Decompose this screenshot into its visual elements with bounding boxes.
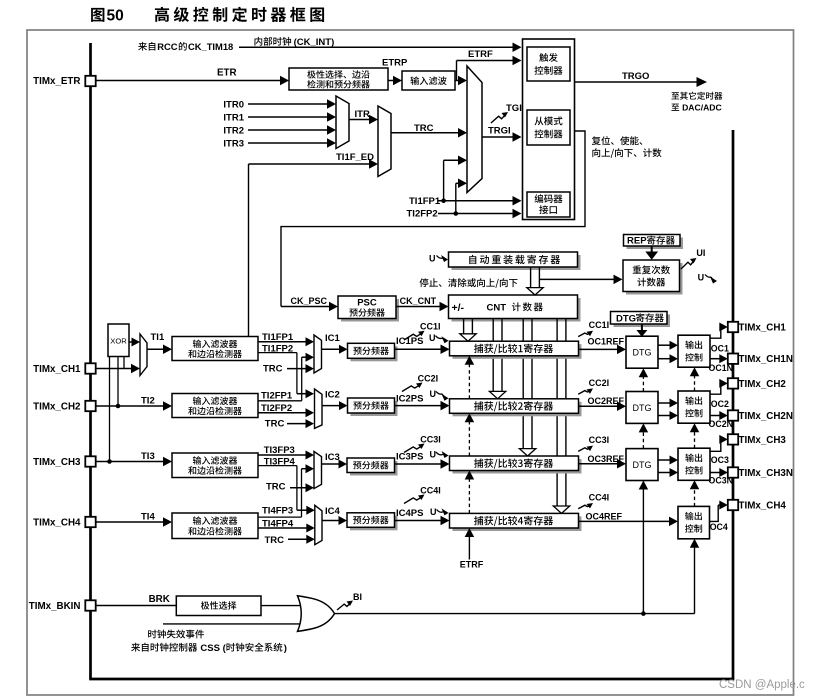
label OC3 [711, 455, 729, 465]
wire DTG3 to output control (OC3) [658, 456, 678, 465]
label TI1 [151, 332, 165, 343]
wire TI4FP3 up to IC3 mux [258, 464, 314, 517]
wire BI to DTG and output control [335, 611, 695, 616]
block 捕获/比较4寄存器 capture compare register 4 [450, 513, 582, 531]
svg-text:TIMx_CH2: TIMx_CH2 [33, 401, 81, 412]
label OC1N [709, 363, 733, 373]
svg-text:ETR: ETR [217, 68, 237, 79]
svg-text:TRC: TRC [263, 364, 283, 375]
label 内部时钟 (CK_INT) [254, 37, 334, 48]
pad TIMx_CH4 [728, 500, 738, 510]
block 捕获/比较2寄存器 capture compare register 2 [450, 399, 582, 417]
svg-text:TI1FP1: TI1FP1 [409, 196, 441, 207]
svg-text:CC4I: CC4I [589, 492, 610, 502]
block 输出控制 output control channel 2 [678, 391, 710, 423]
label CC4I capture interrupt with event arrow [404, 486, 441, 504]
wire ITR1 [248, 112, 336, 122]
label 来自时钟控制器 CSS (时钟安全系统) [131, 643, 287, 654]
label TRC channel1 [263, 364, 283, 375]
label OC2REF [588, 396, 625, 406]
label TI4FP3 [262, 506, 293, 517]
wire TI4FP4 to IC4 mux [258, 524, 315, 533]
label ETRF [468, 49, 493, 60]
svg-text:ETRF: ETRF [468, 49, 493, 60]
wire XOR input stub from TIMx_CH2 [116, 357, 121, 409]
block 触发控制器 trigger controller [527, 47, 570, 81]
svg-text:ETRF: ETRF [460, 560, 484, 570]
svg-text:U: U [430, 450, 437, 460]
svg-text:TI2: TI2 [141, 395, 155, 406]
pin TIMx_CH3N label [739, 468, 793, 479]
wire TI1FP1 to IC1 mux [258, 337, 314, 346]
block XOR [108, 324, 129, 357]
block REP寄存器 repetition register [624, 235, 684, 250]
label CC4I capture event with event arrow [578, 492, 609, 508]
svg-text:ITR3: ITR3 [223, 138, 244, 149]
label BI with event arrow [337, 592, 362, 610]
svg-text:ITR1: ITR1 [223, 112, 244, 123]
block 预分频器 prescaler channel 1 [348, 343, 398, 361]
left bus line [89, 43, 92, 679]
pad TIMx_CH4 [85, 517, 95, 527]
label ITR1 [223, 112, 244, 123]
wire XOR input stub from TIMx_CH1 [123, 357, 125, 369]
label TI1FP2 [262, 343, 293, 354]
svg-text:CSS (: CSS ( [200, 643, 226, 654]
svg-text:ETRP: ETRP [382, 58, 408, 69]
svg-text:XOR: XOR [110, 336, 127, 345]
wire polarity selection to OR gate [261, 605, 303, 607]
svg-text:DTG: DTG [633, 460, 652, 470]
wire TRC to IC1 mux [287, 364, 314, 373]
label IC2PS [396, 394, 423, 405]
label OC4REF [586, 512, 623, 522]
block 预分频器 prescaler channel 4 [347, 513, 398, 531]
svg-text:(CK_INT): (CK_INT) [294, 37, 335, 48]
svg-text:CK_CNT: CK_CNT [400, 296, 437, 306]
wire IC4PS to capture register [395, 516, 450, 526]
wire IC1PS to capture register [395, 345, 450, 355]
svg-text:+/-: +/- [452, 302, 465, 314]
svg-text:OC1: OC1 [711, 343, 729, 353]
wire OC3N to pad [710, 468, 728, 477]
wire ETRF to trigger controller [457, 56, 522, 81]
svg-text:TIMx_BKIN: TIMx_BKIN [29, 601, 81, 612]
mux TI1 selector [140, 334, 147, 376]
svg-text:TIMx_CH1N: TIMx_CH1N [739, 354, 793, 365]
wire ETR [96, 76, 290, 86]
label TI2 [141, 395, 155, 406]
block 极性选择 polarity selection [176, 596, 261, 616]
svg-text:ITR0: ITR0 [223, 99, 244, 110]
svg-text:U: U [430, 507, 437, 517]
bottom bus line [89, 678, 734, 681]
wire ETRF to trigger mux [455, 76, 467, 86]
label ETR [217, 68, 237, 79]
block 极性选择、边沿检测和预分频器 [289, 68, 388, 90]
block 输入滤波器和边沿检测器 channel 1 [172, 337, 258, 361]
pin TIMx_CH4 label [33, 517, 81, 528]
wire OC4REF [579, 517, 679, 527]
label 停止、清除或向上/向下 [420, 278, 518, 288]
wire REP register to repetition counter [645, 246, 658, 260]
svg-text:TI3: TI3 [141, 451, 155, 462]
svg-text:TI2FP1: TI2FP1 [261, 391, 293, 402]
pad TIMx_CH1 [85, 363, 95, 373]
wire OC2N to pad [710, 411, 728, 420]
wire dashed ETRF chain into capture register 2 [465, 413, 475, 456]
pin TIMx_CH2N label [739, 411, 793, 422]
label CK_CNT [400, 296, 437, 306]
label TRGO [622, 71, 649, 82]
svg-text:TI1: TI1 [151, 332, 165, 343]
wire TI3FP4 down to IC4 mux [258, 466, 315, 515]
svg-text:CSDN @Apple.c: CSDN @Apple.c [719, 679, 805, 691]
label OC2 [711, 399, 729, 409]
label TI2FP2 [261, 403, 292, 414]
pin TIMx_BKIN label [29, 601, 81, 612]
svg-text:TI4FP3: TI4FP3 [262, 506, 293, 517]
wire BRK [96, 605, 177, 607]
label TI2FP2 (trigger input) [407, 209, 438, 220]
svg-text:ITR: ITR [355, 109, 370, 120]
svg-text:CK_TIM18: CK_TIM18 [188, 41, 233, 52]
block 预分频器 prescaler channel 3 [347, 458, 398, 476]
block 输出控制 output control channel 4 [678, 506, 710, 538]
label TGI with event arrow [491, 103, 522, 123]
wire TI1FP1 to encoder interface and trigger mux [438, 156, 522, 206]
svg-text:): ) [284, 643, 287, 654]
wire slave controller to PSC (reset enable path) [281, 131, 585, 311]
label CC3I capture event with event arrow [578, 435, 609, 451]
label TI3FP4 [264, 456, 296, 467]
mux IC1 selector [314, 335, 322, 373]
label TRC channel2 [265, 419, 285, 430]
wire OC1 to pad TIMx_CH1 [710, 323, 728, 339]
svg-text:DTG: DTG [633, 403, 652, 413]
label OC3N [709, 475, 733, 485]
label IC1 [325, 333, 341, 344]
label OC2N [709, 419, 733, 429]
svg-text:TIMx_CH1: TIMx_CH1 [33, 364, 81, 375]
label IC4PS [396, 508, 423, 519]
label OC4 [710, 522, 728, 532]
svg-text:CC3I: CC3I [420, 435, 441, 445]
label TI1FP1 [262, 332, 294, 343]
block 输出控制 output control channel 3 [678, 448, 710, 480]
pad TIMx_CH2 [85, 401, 95, 411]
label CC2I capture event with event arrow [578, 378, 609, 394]
block 自动重装载寄存器 auto-reload register [449, 252, 581, 270]
svg-text:OC4REF: OC4REF [586, 512, 623, 522]
wire ITR2 [248, 125, 336, 135]
svg-text:OC3: OC3 [711, 455, 729, 465]
wire ITR mux to TRC mux [349, 115, 378, 125]
wire DTG register to DTG1 [636, 324, 647, 337]
wire BI riser to output control 4 (solid) and dashed chain to OC3 OC2 OC1 [690, 539, 700, 614]
block 输入滤波器和边沿检测器 channel 2 [172, 394, 258, 418]
svg-text:TRC: TRC [265, 419, 285, 430]
wire TRC to IC2 mux [287, 419, 314, 428]
pad TIMx_CH3N [728, 467, 738, 477]
mux trigger input selector [467, 66, 482, 193]
wire IC3PS to capture register [395, 459, 450, 469]
wire ETRP [388, 76, 402, 86]
label BRK [149, 594, 170, 605]
wire DTG3 to output control (OC3N) [658, 468, 678, 477]
svg-text:OC4: OC4 [710, 522, 728, 532]
svg-text:TIMx_ETR: TIMx_ETR [33, 76, 80, 87]
svg-text:TIMx_CH3N: TIMx_CH3N [739, 468, 793, 479]
label 至 DAC/ADC [671, 102, 721, 112]
svg-text:TIMx_CH2N: TIMx_CH2N [739, 411, 793, 422]
wire TI4 [96, 517, 173, 527]
block 重复次数计数器 repetition counter [623, 260, 683, 295]
block DTG寄存器 dead-time register [611, 312, 671, 328]
block 输入滤波器和边沿检测器 channel 4 [172, 513, 258, 539]
wire OC3 to pad TIMx_CH3 [710, 435, 728, 451]
svg-text:TIMx_CH2: TIMx_CH2 [739, 379, 787, 390]
wire TRC to IC3 mux [290, 483, 314, 492]
svg-text:TIMx_CH4: TIMx_CH4 [739, 500, 787, 511]
svg-text:TIMx_CH1: TIMx_CH1 [739, 322, 787, 333]
wire OC1N to pad [710, 354, 728, 363]
svg-text:U: U [429, 254, 436, 264]
label CC1I capture interrupt with event arrow [404, 322, 441, 340]
gate OR break sources [298, 596, 335, 632]
block controller outer box [523, 39, 575, 220]
label TI4 [141, 512, 155, 523]
svg-text:TI2FP2: TI2FP2 [407, 209, 438, 220]
svg-text:BI: BI [353, 592, 362, 602]
label ETRP [382, 58, 408, 69]
label CC1I capture event with event arrow [578, 320, 609, 336]
pin TIMx_CH1 label [739, 322, 787, 333]
svg-text:U: U [698, 272, 705, 282]
pin TIMx_CH3 label [739, 435, 787, 446]
svg-text:CC4I: CC4I [420, 486, 441, 496]
wire CK_CNT [396, 302, 449, 312]
label 来自RCC的CK_TIM18 [138, 41, 233, 52]
svg-text:CC2I: CC2I [589, 378, 610, 388]
svg-text:TIMx_CH3: TIMx_CH3 [33, 457, 81, 468]
wire OC3REF [579, 459, 627, 469]
label TRC channel4 [265, 535, 285, 546]
label OC1REF [588, 337, 625, 347]
label ITR0 [223, 99, 244, 110]
wire TI1F_ED from TI1 edge detector [249, 159, 379, 336]
svg-text:TRGO: TRGO [622, 71, 649, 82]
mux IC2 selector [315, 389, 323, 428]
wire TI2FP2 to IC2 mux [258, 408, 314, 417]
label U update event into capture register 2 [430, 389, 449, 401]
svg-text:50: 50 [107, 8, 124, 25]
label UI event [681, 248, 705, 269]
wire dashed ETRF chain into capture register 3 [465, 471, 475, 514]
wire CNT to capture/compare register 1 (hollow arrow) [460, 319, 476, 342]
svg-text:CK_PSC: CK_PSC [291, 296, 328, 306]
svg-text:TIMx_CH3: TIMx_CH3 [739, 435, 787, 446]
svg-text:IC2PS: IC2PS [396, 394, 423, 405]
wire ITR0 [248, 99, 336, 109]
wire TRGO [575, 77, 708, 87]
mux ITR selector [336, 96, 349, 149]
label CC2I capture interrupt with event arrow [402, 374, 438, 392]
label TI3FP3 [264, 445, 295, 456]
label OC3REF [588, 454, 625, 464]
wire ETRF into capture register 4 [465, 528, 475, 560]
wire IC2 mux output to prescaler [322, 401, 348, 410]
label TI1FP1 (trigger input) [409, 196, 441, 207]
wire TRC to IC4 mux [288, 535, 315, 544]
svg-text:OC2: OC2 [711, 399, 729, 409]
block 捕获/比较1寄存器 capture compare register 1 [450, 341, 582, 359]
label 至其它定时器 [671, 92, 722, 100]
label IC4 [325, 506, 341, 517]
mux IC3 selector [314, 452, 322, 489]
svg-text:IC1: IC1 [325, 333, 341, 344]
pad TIMx_CH3 [728, 434, 738, 444]
svg-text:IC3PS: IC3PS [396, 452, 423, 463]
right bus line [732, 130, 735, 679]
label 复位、使能、向上/向下、计数 [592, 136, 662, 158]
label ITR3 [223, 138, 244, 149]
svg-text:IC1PS: IC1PS [396, 336, 423, 347]
label IC3 [325, 452, 340, 463]
wire DTG2 to output control (OC2) [658, 399, 678, 408]
label TI4FP4 [262, 518, 294, 529]
wire IC2PS to capture register [395, 401, 450, 411]
pad TIMx_ETR [85, 76, 95, 86]
svg-text:RCC: RCC [157, 41, 178, 52]
pad TIMx_CH2 [728, 378, 738, 388]
mux TRC selector [378, 106, 391, 177]
label U update event into capture register 1 [429, 333, 449, 343]
wire DTG1 to output control (OC1) [658, 341, 678, 350]
svg-text:DTG: DTG [616, 313, 636, 324]
pad TIMx_CH1 [728, 322, 738, 332]
wire TRC to trigger mux [391, 128, 467, 138]
wire TI1FP2 down to IC2 mux [258, 353, 314, 399]
wire TI1 to input filter [147, 345, 172, 355]
wire TI3 [96, 457, 173, 467]
pad TIMx_CH2N [728, 410, 738, 420]
svg-text:TRC: TRC [266, 482, 286, 493]
label ETRF bottom [460, 560, 484, 570]
label U event out [698, 272, 717, 283]
label ITR2 [223, 125, 244, 136]
svg-text:TI4: TI4 [141, 512, 155, 523]
pin TIMx_CH4 label [739, 500, 787, 511]
pin TIMx_CH1N label [739, 354, 793, 365]
svg-text:IC4PS: IC4PS [396, 508, 423, 519]
svg-text:IC3: IC3 [325, 452, 340, 463]
block 捕获/比较3寄存器 capture compare register 3 [450, 456, 582, 474]
svg-text:TRGI: TRGI [488, 126, 511, 137]
wire TI3FP3 to IC3 mux [258, 451, 314, 460]
wire OC1REF [579, 345, 627, 355]
pin TIMx_ETR label [33, 76, 80, 87]
block CNT 计数器 counter [449, 295, 581, 322]
pin TIMx_CH3 label [33, 457, 81, 468]
svg-text:CC3I: CC3I [589, 435, 610, 445]
wire TI2FP1 up to IC1 mux [258, 353, 314, 401]
svg-text:U: U [429, 333, 436, 343]
label TRC channel3 [266, 482, 286, 493]
block DTG2 dead-time generator [626, 392, 658, 424]
label OC1 [711, 343, 729, 353]
wire dashed ETRF chain into capture register 1 [465, 356, 475, 399]
pin TIMx_CH2 label [739, 379, 787, 390]
wire DTG1 to output control (OC1N) [658, 354, 678, 363]
label U update event into capture register 3 [430, 450, 449, 460]
label IC3PS [396, 452, 423, 463]
label CC3I capture interrupt with event arrow [404, 435, 441, 453]
pad TIMx_CH3 [85, 456, 95, 466]
label TRGI [488, 126, 511, 137]
pad TIMx_BKIN [85, 600, 95, 610]
svg-text:CC1I: CC1I [589, 320, 610, 330]
pad TIMx_CH1N [728, 354, 738, 364]
watermark CSDN [719, 679, 805, 691]
svg-text:ITR2: ITR2 [223, 125, 244, 136]
block 从模式控制器 slave mode controller [527, 110, 570, 145]
wire BI riser to DTG3 (solid) and dashed chain to DTG2 DTG1 [639, 481, 649, 614]
wire OC2 to pad TIMx_CH2 [710, 379, 728, 394]
wire TIMx_CH1 to TI1 mux [96, 364, 141, 374]
block 输入滤波器和边沿检测器 channel 3 [172, 453, 258, 478]
wire CNT to capture/compare register 2 (hollow arrow) [489, 319, 505, 399]
svg-text:BRK: BRK [149, 594, 170, 605]
wire CK_INT to trigger controller [239, 43, 522, 53]
svg-text:CNT: CNT [487, 302, 507, 313]
svg-text:CC1I: CC1I [420, 322, 441, 332]
wire CNT to capture/compare register 4 (hollow arrow) [553, 319, 569, 514]
wire IC3 mux output to prescaler [322, 460, 348, 469]
label TI3 [141, 451, 155, 462]
svg-text:REP: REP [627, 236, 647, 247]
title 图50 高级控制定时器框图 [91, 7, 324, 25]
pin TIMx_CH2 label [33, 401, 81, 412]
block 输出控制 output control channel 1 [678, 335, 710, 367]
pin TIMx_CH1 label [33, 364, 81, 375]
wire DTG2 to output control (OC2N) [658, 411, 678, 420]
block DTG3 dead-time generator [626, 449, 658, 481]
svg-text:OC1REF: OC1REF [588, 337, 625, 347]
svg-text:TIMx_CH4: TIMx_CH4 [33, 517, 81, 528]
label U event into auto-reload [429, 254, 448, 264]
wire TRGI [482, 132, 522, 142]
block 输入滤波 input filter [402, 71, 455, 90]
wire OC4 to pad TIMx_CH4 [710, 501, 728, 522]
svg-text:PSC: PSC [357, 298, 377, 309]
svg-text:UI: UI [696, 248, 705, 258]
mux IC4 selector [315, 505, 322, 544]
wire TI2FP2 to encoder interface and trigger mux [438, 179, 522, 219]
label U update event into capture register 4 [430, 507, 449, 517]
label CK_PSC [291, 296, 328, 306]
wire XOR input stub from TIMx_CH3 [107, 357, 112, 464]
svg-text:CC2I: CC2I [418, 374, 439, 384]
label ITR [355, 109, 370, 120]
wire auto-reload to CNT (hollow arrow) [527, 267, 543, 295]
wire update to repetition counter [539, 275, 622, 285]
wire clock failure event to OR gate [163, 623, 304, 625]
wire IC4 mux output to prescaler [322, 516, 348, 525]
label IC1PS [396, 336, 423, 347]
svg-text:DTG: DTG [633, 348, 652, 358]
wire CNT to capture/compare register 3 (hollow arrow) [519, 319, 535, 456]
